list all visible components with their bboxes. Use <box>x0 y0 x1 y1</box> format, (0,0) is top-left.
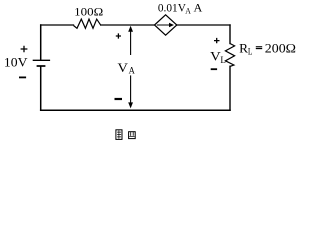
svg-text:L: L <box>220 55 226 65</box>
svg-text:10V: 10V <box>4 55 28 70</box>
svg-text:L: L <box>248 47 253 57</box>
svg-text:A: A <box>194 0 203 14</box>
svg-text:100Ω: 100Ω <box>74 5 103 19</box>
svg-text:A: A <box>185 5 191 15</box>
svg-text:A: A <box>129 66 136 76</box>
svg-text:V: V <box>118 60 129 75</box>
svg-text:200Ω: 200Ω <box>265 42 296 56</box>
svg-text:0.01V: 0.01V <box>158 0 186 14</box>
